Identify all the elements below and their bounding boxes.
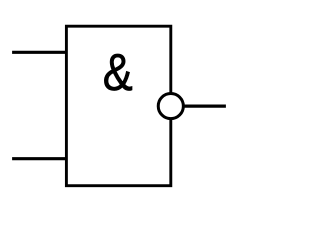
gate body U1 (IEC NAND rectangle) (66, 26, 170, 186)
svg-text:&: & (103, 44, 133, 102)
input wire B (12, 157, 66, 160)
input wire A (12, 51, 66, 54)
inversion bubble (158, 94, 183, 119)
output wire (171, 104, 226, 107)
